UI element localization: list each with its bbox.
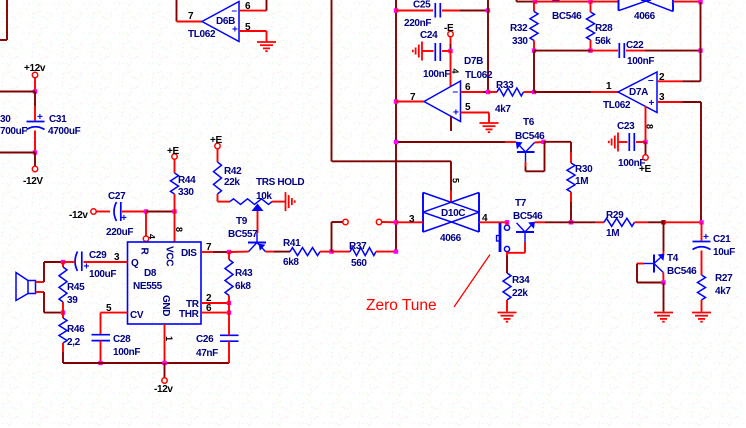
wire T4 emitter-gnd lead [662,273,664,283]
svg-text:4066: 4066 [440,233,462,244]
node C28 rail junction [98,361,102,365]
wire D6B pin5 lead [239,22,267,33]
node THR junction [227,310,231,314]
svg-text:2,2: 2,2 [67,337,81,348]
svg-text:4: 4 [482,213,488,224]
wire C22 right lead [626,50,701,52]
wire C25 left lead [396,10,433,12]
svg-text:30: 30 [0,114,11,125]
power terminal -12v (bottom) [154,378,173,395]
ground at D7B pin5 [480,123,499,132]
wire -12V stub [34,153,36,167]
analog switch 4066 (top, cut off) [619,0,674,22]
node C21 junction [699,220,703,224]
wire 4066-top right lead [673,1,701,3]
wire D7B pin5 drop [488,113,490,123]
svg-text:+E: +E [167,146,179,157]
power terminal +E (C23) [639,155,651,175]
svg-text:R33: R33 [496,80,514,91]
svg-text:D10C: D10C [441,208,465,219]
svg-text:T6: T6 [523,117,535,128]
wire net D6B-out vertical [331,0,333,161]
svg-text:560: 560 [351,258,367,269]
wire R42 bottom elbow [218,194,231,202]
svg-text:+: + [232,25,238,36]
svg-text:R41: R41 [283,238,301,249]
wire NE555 pin4 drop [146,212,157,240]
capacitor C26 [196,334,239,359]
svg-text:TRS HOLD: TRS HOLD [256,177,304,188]
wire C27 left lead [96,211,110,213]
svg-text:C26: C26 [196,334,214,345]
wire R30 bottom lead [570,192,572,222]
node T4 gnd junction [661,280,665,284]
transistor T9 [228,216,266,252]
wire C25 right lead [442,10,488,12]
wire D7B pin7 lead [396,92,424,103]
svg-text:C29: C29 [89,250,107,261]
wire D6B pin6 riser [266,0,268,11]
resistor R32 [510,12,538,48]
node R30 bottom junction [569,220,573,224]
svg-text:4066: 4066 [634,11,656,22]
svg-text:-E: -E [444,23,454,34]
svg-text:100nF: 100nF [627,56,654,67]
wire pin4-pin8 link [146,211,175,213]
svg-text:-12v: -12v [154,384,173,395]
resistor R46 [59,313,85,352]
node T6 wire junction [394,140,398,144]
svg-text:+: + [84,262,90,273]
wire NE555 pin5 lead [101,303,128,314]
svg-text:THR: THR [179,309,200,320]
svg-text:BC546: BC546 [513,211,543,222]
resistor R28 [587,12,614,47]
terminal connector left [343,219,348,224]
svg-text:330: 330 [178,187,194,198]
svg-text:R42: R42 [224,166,242,177]
resistor R41 [283,238,332,268]
transistor T7 [513,198,543,242]
svg-text:220uF: 220uF [106,227,133,238]
wire R34 top lead [506,256,508,274]
power terminal +E (R44) [167,146,179,159]
transistor T5 fragment (cut off) [535,0,591,22]
svg-text:6: 6 [465,82,471,93]
wire D10C pin5 drop [451,161,461,201]
svg-text:10k: 10k [256,191,272,202]
svg-text:+: + [703,232,709,243]
svg-text:R: R [139,248,150,256]
label Zero Tune [366,255,490,315]
svg-text:5: 5 [106,303,112,314]
node R28 bottom junction [588,48,592,52]
svg-text:+: + [453,108,459,119]
svg-text:NE555: NE555 [133,281,163,292]
svg-text:C25: C25 [413,0,431,11]
node R28 top junction [588,0,592,4]
node R33 right junction [532,90,536,94]
svg-text:R32: R32 [510,23,528,34]
svg-text:R45: R45 [67,282,85,293]
wire left connector elbow [332,222,343,252]
transistor T6 [515,117,545,162]
wire right feedback vertical [700,2,702,81]
svg-text:5: 5 [465,102,471,113]
wire NE555 gnd drop [164,324,174,363]
wire T7 base lead [524,242,526,253]
capacitor C30 labels (cut off) [0,114,27,137]
wire D10C pin4 lead [479,213,507,224]
svg-text:TL062: TL062 [603,100,631,111]
svg-text:BC546: BC546 [667,266,697,277]
svg-text:T4: T4 [667,253,679,264]
svg-text:6: 6 [206,303,212,314]
timer U D8 NE555 [128,242,202,324]
wire -12V rail to left edge [0,152,35,154]
svg-text:R29: R29 [606,210,624,221]
node speaker top junction [61,260,65,264]
svg-text:TL062: TL062 [465,70,493,81]
resistor R30 [567,152,593,192]
transistor T4 [644,253,697,277]
wire pin1 net [534,81,618,92]
ground at C23 (sideways) [609,133,618,152]
svg-text:-12v: -12v [69,210,88,221]
wire D6B output riser [176,0,178,22]
wire -E stub [450,37,452,51]
wire C23 left lead [618,141,628,143]
wire D10C pin3 lead [396,214,423,225]
wire C31 top lead [34,92,36,121]
svg-text:3: 3 [659,92,665,103]
wire D7A pin2 lead [657,72,701,83]
svg-text:47nF: 47nF [196,348,218,359]
wire T7 emitter lead [535,221,572,223]
node R41-R37 junction [329,249,333,253]
resistor R33 [488,80,534,115]
capacitor C24 [420,30,450,80]
power terminal +12v [24,63,46,78]
svg-text:DIS: DIS [181,248,197,259]
svg-text:+12v: +12v [24,63,46,74]
svg-text:-12V: -12V [23,176,43,187]
wire T6 to R30 [544,142,572,152]
svg-text:8: 8 [645,124,655,129]
wire top-left bracket [0,0,7,40]
wire NE555 pin6 lead [201,303,229,314]
ground at C24 (sideways) [413,42,422,61]
wire D7B pin6 lead [461,82,489,93]
svg-text:1: 1 [164,336,174,341]
wire pot right lead [272,201,286,203]
node D10C pin3 junction [394,220,398,224]
resistor R29 [604,210,664,239]
capacitor C28 [92,334,141,358]
resistor R43 [225,252,253,303]
svg-text:BC546: BC546 [552,11,582,22]
wire speaker bottom lead [36,292,64,313]
wire 4066-top left lead [591,1,619,3]
wire -12v stub bottom [164,363,166,378]
capacitor C31 [27,112,81,137]
wire C28 bottom lead [100,341,102,363]
capacitor C25 [404,0,440,29]
analog switch D10C 4066 [423,193,479,245]
svg-text:GND: GND [160,295,171,316]
wire DIS to T9 [229,251,249,253]
svg-text:C22: C22 [626,40,644,51]
node C24 junction [448,49,452,53]
wire to C21 [664,221,702,223]
wire C31 bottom lead [34,131,36,153]
wire R46 to gnd rail [63,352,101,363]
svg-text:39: 39 [67,295,78,306]
svg-text:+E: +E [639,164,651,175]
svg-text:D7A: D7A [629,87,648,98]
svg-text:R44: R44 [178,175,196,186]
svg-text:CV: CV [130,310,144,321]
wire D7A pin3 vertical [700,102,702,222]
svg-text:R28: R28 [595,23,613,34]
svg-text:+: + [649,98,655,109]
wire pin6-net vertical [487,0,489,92]
wire C24 left lead [422,50,434,52]
svg-text:3: 3 [409,214,415,225]
svg-text:4700uF: 4700uF [48,126,81,137]
wire CV drop [100,313,102,334]
capacitor C29 [75,250,116,280]
node NE555 pin4 junction [144,209,148,213]
svg-text:7: 7 [410,92,416,103]
wire R28 top lead [590,2,592,12]
svg-text:2: 2 [659,72,665,83]
wire D7B bottom stub [450,117,452,132]
wire D7B pin4 drop [450,51,460,86]
node T6 collector junction [541,140,545,144]
node D7B pin6 junction [486,90,490,94]
wire +12v stub [34,78,36,91]
resistor R34 [503,273,530,312]
node R32 bottom junction [532,48,536,52]
wire TR-THR link [228,303,230,313]
wire D7A pin8 drop [645,106,655,142]
wire D6B pin7 lead [177,11,203,22]
wire R32 bottom lead [533,41,535,51]
svg-text:–: – [453,87,459,98]
ground at R34 [498,313,517,322]
node C22 right junction [698,48,702,52]
ground at D6B pin5 [257,42,276,51]
svg-text:100nF: 100nF [113,347,140,358]
wire +12v rail to left edge [0,91,35,93]
op-amp D7B [424,56,493,122]
wire jumper to T7 base [507,252,525,254]
svg-text:C21: C21 [713,234,731,245]
op-amp D6B [188,2,239,42]
wire C29 left lead [63,261,75,263]
wire D6B pin6 lead [239,1,267,12]
svg-text:R46: R46 [67,324,85,335]
wire C26 top lead [228,313,230,336]
svg-text:C31: C31 [49,114,67,125]
power terminal -E [444,23,454,37]
svg-text:3: 3 [114,252,120,263]
svg-text:1: 1 [606,81,612,92]
terminal NE555 pin4 [143,236,148,241]
vertical R32node-R33node [533,51,535,92]
wire D7A pin3 lead [657,92,701,103]
svg-text:C23: C23 [617,121,635,132]
svg-text:5: 5 [245,22,251,33]
wire C23 right lead [636,141,646,143]
svg-text:D7B: D7B [464,56,483,67]
wire C26 bottom lead [228,341,230,363]
svg-text:D8: D8 [144,268,157,279]
wire NE555 pin2 lead [201,293,229,304]
node gnd rail junction [162,361,166,365]
wire main vertical net A [395,0,397,252]
svg-text:100nF: 100nF [423,69,450,80]
capacitor C23 [617,121,645,169]
svg-text:+E: +E [210,135,222,146]
svg-text:T7: T7 [515,198,527,209]
wire T6 base loop [526,142,545,172]
node D7B output junction [394,99,398,103]
resistor R37 [332,241,397,269]
svg-text:R27: R27 [715,273,733,284]
svg-text:22k: 22k [224,177,240,188]
wire NE555 pin8 drop [174,212,184,243]
wire pot wiper drop [257,211,259,233]
wire right connector lead [382,221,396,223]
wire T6 collector lead [535,141,544,144]
ground at pot (sideways) [286,192,295,211]
resistor R45 [59,262,85,313]
svg-text:R37: R37 [349,241,367,252]
svg-text:BC546: BC546 [515,131,545,142]
svg-text:+: + [37,112,43,123]
svg-text:–: – [232,6,238,17]
svg-text:BC557: BC557 [228,229,258,240]
resistor R42 [214,149,243,194]
svg-text:10uF: 10uF [713,247,735,258]
svg-text:+: + [121,213,127,224]
svg-text:1M: 1M [575,176,588,187]
node DIS junction [227,250,231,254]
svg-text:5: 5 [451,178,461,183]
svg-text:Q: Q [131,258,139,269]
node net A / C25 junction [394,8,398,12]
power terminal -12v (C27) [69,209,96,221]
ground at T4 [654,313,673,322]
svg-text:R43: R43 [235,268,253,279]
wire D7B pin5 lead [461,102,490,113]
ground at R27 [692,313,711,322]
resistor R27 [698,273,734,312]
wire C21 top lead [701,222,703,240]
svg-text:22k: 22k [512,288,528,299]
svg-text:R30: R30 [575,164,593,175]
wire top-center riser [517,0,536,2]
wire speaker top lead [36,262,64,282]
wire D6B pin5 drop [266,31,268,42]
node TR junction [227,301,231,305]
node C23 junction [643,140,647,144]
wire NE555 pin7 lead [201,242,229,253]
wire T4 collector drop [662,222,664,254]
node speaker bottom junction [61,310,65,314]
connector J zero-tune [497,222,510,255]
capacitor C22 [619,40,654,67]
wire T4 base loop [637,264,664,283]
svg-text:6k8: 6k8 [235,281,251,292]
wire C27 right lead [122,211,146,213]
svg-text:7: 7 [188,11,194,22]
wire net to D10C control [332,160,452,162]
op-amp D7A [603,72,657,113]
svg-text:220nF: 220nF [404,18,431,29]
wire T6 emitter net [396,141,516,143]
svg-text:4k7: 4k7 [495,104,511,115]
wire R28 bottom lead [590,40,592,51]
wire T4 gnd drop [663,283,665,312]
svg-text:6k8: 6k8 [283,257,299,268]
node top-right junction [698,0,702,4]
svg-text:R34: R34 [512,275,530,286]
wire C21 bottom lead [701,251,703,276]
terminal connector right [376,219,381,224]
potentiometer 10k TRS HOLD [230,177,304,211]
svg-text:4: 4 [450,69,460,74]
capacitor C21 [693,232,736,258]
wire R32-R28 node rail [534,50,618,52]
svg-text:6: 6 [245,1,251,12]
svg-text:C24: C24 [420,30,438,41]
svg-text:330: 330 [512,36,528,47]
resistor R44 [171,159,197,211]
svg-text:1M: 1M [606,228,619,239]
wire R30node to R29 [571,221,604,223]
svg-text:–: – [648,75,654,86]
svg-text:100uF: 100uF [89,269,116,280]
svg-text:VCC: VCC [164,246,175,266]
svg-text:4k7: 4k7 [715,286,731,297]
svg-text:C28: C28 [113,334,131,345]
wire NE555 pin3 lead [84,252,128,263]
svg-text:C27: C27 [108,191,126,202]
svg-text:T9: T9 [236,216,248,227]
node -12V junction [33,150,37,154]
svg-text:Zero Tune: Zero Tune [366,297,437,314]
node jumper junction [505,220,509,224]
node NE555 pin8 junction [172,209,176,213]
svg-text:700uF: 700uF [0,126,27,137]
wire T9 to R41 [266,251,291,253]
node T4 junction [661,220,665,224]
svg-text:8: 8 [174,227,184,232]
node C25 right junction [486,8,490,12]
wire C24 right lead [442,50,451,52]
svg-text:TL062: TL062 [188,29,216,40]
wire R32 top lead [533,2,535,12]
svg-text:7: 7 [206,242,212,253]
wire +E stub at C23 [645,142,647,155]
node R37 right junction [394,249,398,253]
power terminal +E (R42) [210,135,222,149]
speaker LS [16,273,36,301]
power terminal -12V [23,166,43,187]
